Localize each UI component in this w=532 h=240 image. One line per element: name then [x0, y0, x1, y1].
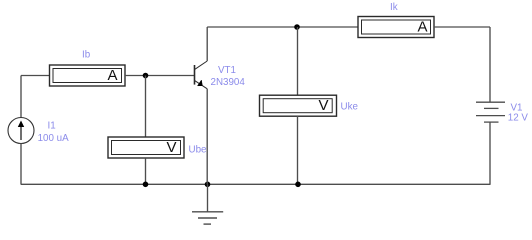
- wire: Ik ammeter right to corner (horizontal): [434, 26, 490, 28]
- svg-text:Ik: Ik: [390, 2, 398, 13]
- wire: junction down to voltmeter Ube top: [145, 76, 147, 138]
- ammeter Ib (box): [50, 65, 126, 86]
- voltmeter Uke (box): [260, 95, 337, 116]
- wire: Ib ammeter right to transistor base: [125, 75, 195, 77]
- svg-text:Uke: Uke: [341, 101, 359, 112]
- svg-text:A: A: [107, 67, 117, 84]
- wire: bottom rail (horizontal): [21, 183, 491, 185]
- wire: corner to Ib ammeter left (horizontal): [21, 75, 50, 77]
- node: junction Uke / bottom rail: [295, 182, 301, 188]
- wire: voltmeter Ube bottom to ground rail: [145, 158, 147, 184]
- voltmeter Ube (box): [108, 137, 184, 158]
- wire: battery V1 bottom down to ground rail: [489, 122, 491, 184]
- battery V1: [476, 102, 505, 122]
- svg-text:Ib: Ib: [82, 49, 91, 60]
- svg-text:V: V: [166, 139, 176, 156]
- wire: current source bottom down (vertical): [20, 144, 22, 185]
- node: junction Ube / bottom rail: [143, 182, 149, 188]
- svg-text:A: A: [417, 19, 427, 36]
- wire: corner down to battery V1 top: [489, 27, 491, 102]
- node: junction base/Ube: [143, 73, 149, 79]
- node: junction top rail / Uke: [294, 24, 300, 30]
- node: junction emitter-ground / bottom rail: [205, 182, 211, 188]
- wire: top rail collector to Ik ammeter: [207, 26, 358, 28]
- ground: [192, 184, 223, 224]
- current source I1: [8, 118, 34, 144]
- wire: voltmeter Uke bottom to ground rail: [297, 116, 299, 184]
- svg-text:VT1: VT1: [218, 65, 236, 76]
- svg-text:100 uA: 100 uA: [38, 133, 70, 144]
- wire: current source top to Ib ammeter (vertical): [20, 76, 22, 118]
- transistor VT1 2N3904 (NPN): [195, 61, 208, 89]
- svg-text:2N3904: 2N3904: [211, 77, 246, 88]
- svg-text:V: V: [318, 97, 328, 114]
- svg-text:I1: I1: [48, 120, 56, 131]
- svg-text:12 V: 12 V: [508, 113, 529, 124]
- ammeter Ik (box): [358, 17, 434, 38]
- wire: junction down to voltmeter Uke top: [297, 27, 299, 95]
- svg-text:Ube: Ube: [189, 145, 208, 156]
- wire: emitter down to bottom rail: [206, 89, 208, 185]
- wire: collector up (vertical): [206, 27, 208, 61]
